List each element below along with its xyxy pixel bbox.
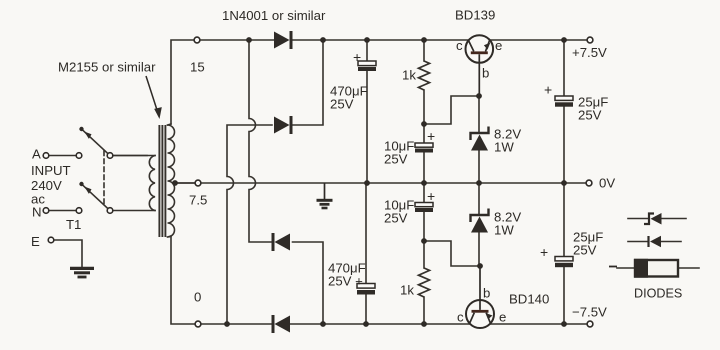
switch S1b pivot [107,208,113,214]
wire C5/C6 column x=564 [563,40,565,324]
zener ZD1 8.2V [471,127,489,151]
svg-text:c: c [456,38,463,53]
wire base link Q1 (1k/10uF node to base node) [424,96,479,124]
resistor R2 1k [419,268,430,297]
switch S1a fixed contact [76,153,82,159]
switch pole 2 wires [49,210,76,212]
svg-text:+: + [427,188,435,204]
diode D3 [272,233,291,251]
wire bottom rail middle (D4 anode to Q2 collector) [290,323,470,325]
svg-text:BD140: BD140 [509,292,549,307]
svg-text:b: b [482,66,489,81]
terminal 7.5 tap [195,180,201,186]
switch S1a lever arrowhead [84,132,91,139]
svg-text:A: A [32,147,41,162]
svg-text:1N4001 or similar: 1N4001 or similar [222,8,326,23]
wire riser x=249 (15-tap down to D3 cathode, hops D2 wire and 0V rail) [249,40,271,242]
svg-text:N: N [32,205,42,220]
switch S1a lever tip dot [79,127,83,131]
svg-text:7.5: 7.5 [189,193,207,208]
svg-text:E: E [31,234,40,249]
resistor R1 1k [419,61,430,90]
capacitor C2 470uF 25V [357,284,375,295]
junction R2 bottom on -rail [421,321,427,327]
wire bottom rail left (transformer 0 tap to D4) [171,236,271,324]
junction R1 top on +rail [421,37,427,43]
node Q2 base [477,263,483,269]
junction D2 cathode riser on +rail [320,37,326,43]
wire R1/C3/C4/R2 column x=424 [423,40,425,324]
capacitor C6 25uF 25V [555,257,573,268]
terminal A input [43,153,49,159]
wire C2 column 470uF bottom [365,183,367,324]
transformer centre tap wire [175,182,195,184]
wire top rail middle (D1 cathode to Q1 collector) [293,39,469,41]
svg-text:25V: 25V [384,211,408,226]
diode D4 [272,315,291,333]
svg-text:15: 15 [190,60,205,75]
junction D3 anode riser on -rail [320,321,326,327]
wire riser x=227 (0-tap to D2 anode, hops 0V rail) [227,125,272,324]
terminal +7.5V output [587,37,593,43]
switch gang dashed link [103,151,105,207]
wire top rail right (Q1 emitter to +7.5V terminal) [490,39,588,41]
switch pole 1 wires [49,155,147,157]
svg-text:DIODES: DIODES [634,287,682,301]
junction C3/C4 on 0V rail [421,180,427,186]
legend plain diode wire [628,241,681,243]
junction ZD1/ZD2 on 0V rail [476,180,482,186]
wire D2 cathode riser to top rail [293,40,324,125]
transistor Q2 BD140 [466,266,494,328]
terminal 0V output [586,180,592,186]
wire D3 anode dropper to bottom rail [293,242,324,324]
capacitor C5 25uF 25V [555,96,573,107]
svg-text:0V: 0V [599,176,615,191]
svg-text:M2155 or similar: M2155 or similar [58,60,156,75]
svg-text:c: c [457,310,464,325]
legend package diode symbol [634,259,678,278]
terminal -7.5V output [587,321,593,327]
diode D1 [274,31,293,49]
svg-text:+: + [544,82,552,98]
wire base link Q2 [424,241,480,266]
terminal E earth [48,237,54,243]
minus polarity dash (C6) [609,266,617,268]
svg-text:T1: T1 [66,217,81,232]
junction D1 anode / riser top [246,37,252,43]
ground symbol (0V rail) [317,183,333,208]
junction transformer centre tap [172,180,178,186]
transformer T1 core [159,126,165,236]
svg-text:+: + [540,244,548,260]
wire zener column x=479 [478,96,480,266]
legend package diode wire [617,267,699,269]
junction C2 bottom on -rail [363,321,369,327]
svg-text:1k: 1k [402,68,416,83]
switch pole 1 lever [82,130,110,156]
svg-text:1W: 1W [494,140,514,155]
svg-text:INPUT: INPUT [31,163,71,178]
switch S1b lever tip dot [79,182,83,186]
node Q1 base [476,93,482,99]
svg-text:−7.5V: −7.5V [572,305,607,320]
switch S1b fixed contact [76,208,82,214]
svg-text:b: b [483,286,490,301]
junction C1/C2 on 0V rail [364,180,370,186]
capacitor C4 10uF 25V [415,203,433,213]
svg-text:e: e [495,38,502,53]
svg-text:+7.5V: +7.5V [572,45,607,60]
label M2155 arrow [146,76,162,119]
junction C1 top on +rail [364,37,370,43]
svg-text:BD139: BD139 [455,8,495,23]
diode D2 [274,116,293,134]
switch S1a pivot [107,153,113,159]
terminal 0 tap [195,321,201,327]
svg-text:25V: 25V [573,243,597,258]
capacitor C1 470uF 25V [358,61,376,71]
terminal N input [43,208,49,214]
svg-text:1W: 1W [494,223,514,238]
legend plain diode symbol [649,236,662,247]
legend zener diode symbol [644,213,662,225]
zener ZD2 8.2V [471,209,489,233]
wire top rail left (15 tap to D1 anode) [171,40,274,124]
node R2/C4 [421,238,427,244]
junction C5 top on +rail [561,37,567,43]
switch S1b lever arrowhead [84,187,91,194]
svg-text:25V +: 25V + [328,274,363,289]
transistor Q1 BD139 [466,35,494,96]
transformer T1 primary winding [113,156,155,211]
svg-text:25V: 25V [578,108,602,123]
junction C6 bottom on -rail [561,321,567,327]
wire C1 column 470uF top [366,40,368,183]
transformer T1 secondary winding [168,124,175,237]
svg-text:25V: 25V [330,97,354,112]
svg-text:+: + [427,128,435,144]
svg-text:1k: 1k [400,283,414,298]
junction 0-tap riser on -rail [224,321,230,327]
svg-text:+: + [353,49,361,65]
terminal 15 tap [194,37,200,43]
earth terminal wire [54,240,82,267]
switch pole 2 lever [82,185,110,211]
wire 0V rail [175,182,586,184]
node R1/C3 [421,121,427,127]
junction C5/C6 on 0V rail [561,180,567,186]
svg-text:25V: 25V [384,152,408,167]
ground symbol (earth E) [70,268,94,277]
svg-text:0: 0 [194,290,201,305]
svg-text:e: e [499,310,506,325]
wire bottom rail right (Q2 emitter to -7.5V terminal) [491,323,588,325]
capacitor C3 10uF 25V [415,143,433,153]
legend zener diode wire [628,218,686,220]
